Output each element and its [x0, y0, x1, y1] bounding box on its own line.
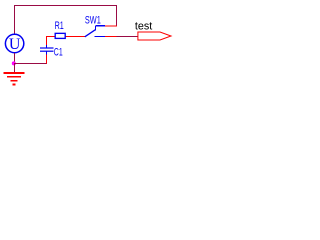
wire bottom horizontal junction to capacitor branch	[14, 63, 47, 65]
resistor R1 body	[55, 33, 65, 38]
svg-text:R1: R1	[55, 20, 64, 32]
ground bar 1	[4, 72, 25, 74]
capacitor C1 lower pin stub	[46, 51, 48, 55]
ground bar 3	[11, 80, 18, 82]
wire left vertical from rail to source	[14, 5, 16, 35]
switch SW1 bottom throw contact	[95, 36, 106, 38]
switch SW1 lever	[85, 30, 95, 37]
switch SW1 top contact hook	[94, 26, 96, 31]
ground bar 4	[13, 83, 16, 85]
wire capacitor lower lead	[46, 54, 48, 63]
capacitor C1 plates	[40, 47, 54, 48]
svg-text:SW1: SW1	[85, 15, 101, 27]
svg-text:C1: C1	[54, 47, 63, 59]
wire top rail	[14, 5, 117, 7]
wire top contact to right vertical	[105, 25, 117, 27]
wire right vertical from rail down to switch top throw	[116, 5, 118, 26]
wire below source to junction	[14, 53, 16, 64]
switch SW1 top throw contact	[96, 25, 106, 27]
wire maroon segment to test port	[117, 36, 139, 38]
port test pentagon	[138, 32, 171, 40]
ground bar 2	[7, 76, 21, 78]
svg-text:U: U	[9, 36, 21, 53]
node junction dot	[12, 61, 16, 65]
wire resistor to switch pivot	[65, 36, 86, 38]
voltage source U1 circle	[5, 34, 23, 52]
wire main horizontal left of resistor	[46, 36, 56, 38]
wire capacitor upper lead	[46, 36, 48, 45]
capacitor C1 upper pin stub	[46, 45, 48, 48]
wire ground stem	[14, 63, 16, 72]
svg-text:test: test	[135, 20, 152, 32]
wire bottom contact red segment	[105, 36, 117, 38]
